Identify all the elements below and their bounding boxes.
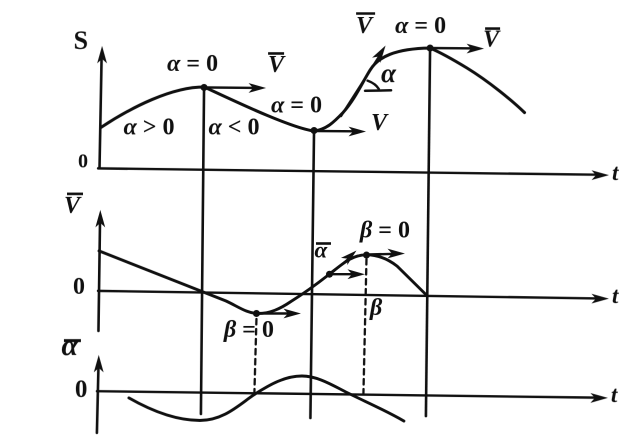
svg-text:α < 0: α < 0 <box>209 114 260 140</box>
svg-text:V: V <box>356 13 374 39</box>
svg-text:0: 0 <box>78 150 88 172</box>
svg-text:t: t <box>612 160 619 185</box>
svg-text:β: β <box>369 295 383 321</box>
svg-text:V: V <box>268 52 286 78</box>
svg-text:V: V <box>64 193 82 219</box>
svg-text:t: t <box>611 382 618 407</box>
svg-text:V: V <box>483 27 501 53</box>
svg-text:α: α <box>381 58 397 88</box>
svg-text:α = 0: α = 0 <box>271 92 322 118</box>
svg-text:V: V <box>371 110 389 136</box>
svg-text:0: 0 <box>73 274 85 300</box>
svg-text:α > 0: α > 0 <box>124 114 175 140</box>
svg-text:α: α <box>61 329 78 362</box>
svg-text:β = 0: β = 0 <box>359 218 410 244</box>
svg-text:α = 0: α = 0 <box>395 13 446 39</box>
svg-text:β = 0: β = 0 <box>223 317 274 343</box>
svg-text:S: S <box>74 26 88 55</box>
svg-text:0: 0 <box>75 376 88 403</box>
svg-text:t: t <box>612 283 619 308</box>
svg-text:α = 0: α = 0 <box>167 51 218 77</box>
svg-text:α: α <box>314 237 328 262</box>
